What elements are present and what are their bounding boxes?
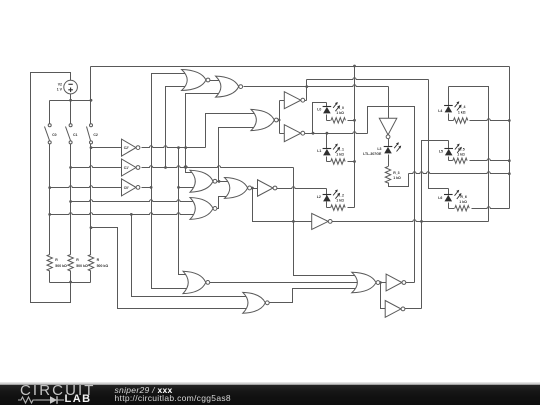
svg-text:L0: L0 — [317, 108, 321, 112]
svg-text:V2: V2 — [58, 83, 62, 87]
svg-text:R_0: R_0 — [338, 106, 344, 110]
svg-text:500 kΩ: 500 kΩ — [76, 264, 88, 268]
svg-text:C0′: C0′ — [124, 186, 129, 190]
svg-text:500 kΩ: 500 kΩ — [55, 264, 67, 268]
svg-text:C2: C2 — [93, 133, 98, 137]
svg-text:1 kΩ: 1 kΩ — [393, 176, 401, 180]
svg-text:L4: L4 — [438, 109, 442, 113]
svg-text:L6: L6 — [438, 196, 442, 200]
svg-text:1 kΩ: 1 kΩ — [459, 200, 467, 204]
svg-text:R_3: R_3 — [393, 171, 399, 175]
svg-text:1 V: 1 V — [57, 88, 63, 92]
svg-text:500 kΩ: 500 kΩ — [97, 264, 109, 268]
svg-text:C2′: C2′ — [124, 146, 129, 150]
svg-text:R_5: R_5 — [458, 148, 464, 152]
svg-text:R_6: R_6 — [460, 195, 466, 199]
svg-text:1 kΩ: 1 kΩ — [336, 153, 344, 157]
svg-text:LTL-307GE: LTL-307GE — [363, 152, 382, 156]
svg-text:C0: C0 — [52, 133, 57, 137]
svg-text:C1: C1 — [73, 133, 78, 137]
svg-text:R_2: R_2 — [338, 193, 344, 197]
svg-text:R_4: R_4 — [459, 105, 465, 109]
svg-text:1 kΩ: 1 kΩ — [336, 111, 344, 115]
svg-text:1 kΩ: 1 kΩ — [336, 199, 344, 203]
svg-text:R_1: R_1 — [338, 148, 344, 152]
svg-text:1 kΩ: 1 kΩ — [457, 153, 465, 157]
svg-text:L5: L5 — [439, 150, 443, 154]
svg-text:1 kΩ: 1 kΩ — [458, 110, 466, 114]
svg-text:L1: L1 — [317, 149, 321, 153]
svg-text:L2: L2 — [317, 195, 321, 199]
svg-text:L3: L3 — [377, 147, 381, 151]
svg-text:C1′: C1′ — [124, 166, 129, 170]
